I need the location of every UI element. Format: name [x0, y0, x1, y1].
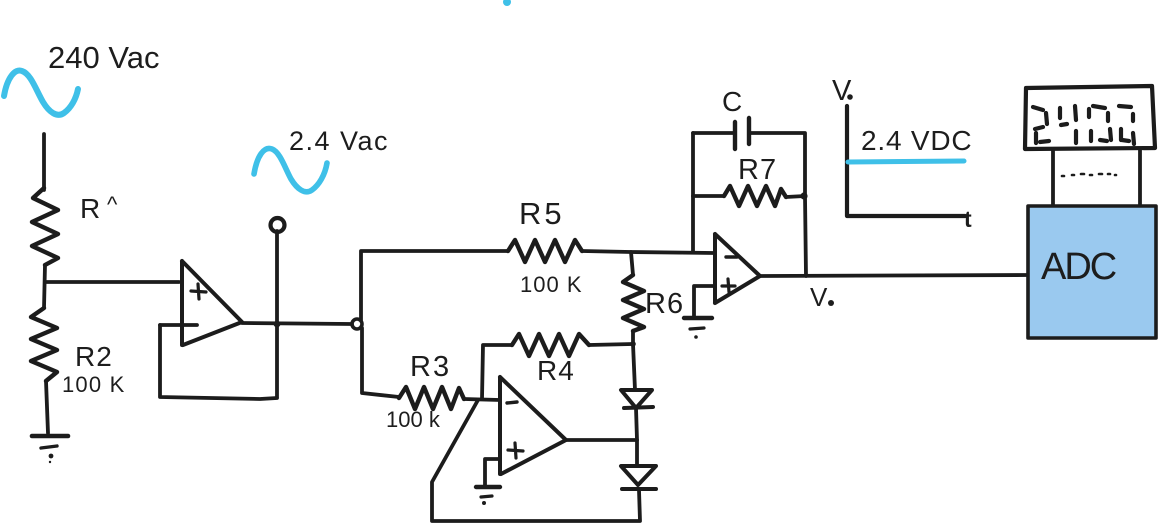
wire R5 to U3 input	[582, 251, 714, 253]
op-amp U2 plus	[508, 443, 523, 458]
AC sine symbol (2.4 Vac)	[254, 148, 327, 191]
svg-text:R2: R2	[75, 341, 113, 372]
wire display lead right	[1138, 149, 1142, 206]
wire to R5	[361, 251, 508, 320]
svg-text:R4: R4	[537, 355, 575, 386]
graph 2.4 VDC line	[848, 161, 964, 162]
svg-text:240 Vac: 240 Vac	[48, 40, 159, 75]
capacitor C	[735, 118, 749, 149]
wire to R3	[362, 328, 399, 397]
wire U2 plus to ground	[485, 459, 500, 485]
resistor R5	[508, 240, 582, 262]
display digit 0a	[1089, 106, 1111, 141]
display digit 4	[1060, 106, 1076, 143]
node circle splitter	[352, 319, 362, 329]
op-amp U3 plus	[722, 279, 735, 292]
resistor R2	[31, 308, 57, 381]
node junction dot	[274, 321, 281, 328]
output terminal circle	[271, 218, 285, 232]
svg-text:V: V	[832, 75, 852, 107]
wire C top feedback	[693, 133, 805, 196]
junction dot R7	[800, 192, 807, 199]
ground U2	[476, 487, 500, 505]
resistor R7	[724, 186, 786, 206]
svg-text:R7: R7	[738, 154, 777, 186]
wire R4 left leg	[482, 345, 512, 399]
wire R2 to ground	[46, 381, 48, 433]
wire U3 plus to ground	[694, 286, 715, 316]
svg-text:^: ^	[107, 192, 118, 217]
svg-text:t: t	[964, 206, 972, 232]
ground	[32, 436, 68, 463]
op-amp U2	[500, 377, 566, 474]
svg-text:R: R	[80, 193, 100, 224]
display box	[1025, 86, 1155, 149]
junction dot R4/R6	[630, 341, 636, 347]
op-amp U1 inverting stub	[160, 323, 197, 327]
svg-text:2.4 VDC: 2.4 VDC	[861, 125, 972, 156]
wire right feedback vertical	[805, 196, 806, 276]
wire R3 to U2	[464, 399, 500, 400]
wire junction to diode D1	[633, 344, 635, 390]
dotted bus	[1062, 174, 1116, 176]
wire R4 right to junction	[589, 344, 633, 345]
diode D1	[621, 390, 653, 408]
svg-text:100 K: 100 K	[62, 372, 126, 397]
wire node vertical	[275, 231, 279, 397]
svg-text:V: V	[810, 282, 828, 312]
svg-text:100 k: 100 k	[386, 407, 441, 432]
wire R6 top stub	[631, 252, 633, 275]
op-amp U2 minus	[507, 402, 517, 403]
wire diode column	[636, 408, 637, 466]
AC sine symbol (240 Vac)	[4, 70, 78, 114]
ground U3	[684, 318, 712, 339]
display digit 2	[1033, 107, 1049, 143]
wire R6 bottom stub	[631, 331, 635, 344]
diode D2	[621, 466, 656, 489]
wire U2 diagonal return	[432, 400, 640, 521]
op-amp U1	[182, 261, 242, 345]
wire U2 output	[566, 438, 637, 442]
wire R7 left stub	[693, 194, 724, 198]
op-amp U1 plus	[191, 284, 206, 299]
wire top feed	[42, 134, 46, 190]
ADC block	[1028, 206, 1156, 338]
wire U1 output	[242, 323, 352, 324]
wire U3 output to ADC	[760, 275, 1028, 276]
wire left feedback vertical	[691, 133, 695, 252]
svg-text:ADC: ADC	[1041, 246, 1116, 288]
stray cyan mark top	[503, 0, 511, 6]
wire U1 feedback	[160, 325, 277, 399]
svg-text:100 K: 100 K	[520, 272, 583, 297]
wire divider node to op-amp input	[46, 280, 179, 284]
svg-text:R6: R6	[645, 288, 684, 320]
resistor R1	[32, 188, 58, 265]
op-amp U3 minus	[726, 255, 737, 258]
wire R1 to divider node	[44, 265, 45, 308]
graph axes	[847, 106, 965, 216]
display digit 0b	[1119, 106, 1134, 144]
svg-text:R5: R5	[519, 196, 565, 231]
resistor R3	[399, 387, 464, 409]
op-amp U3	[715, 234, 760, 303]
svg-text:R3: R3	[410, 351, 451, 383]
resistor R6	[623, 275, 644, 331]
svg-text:C: C	[722, 86, 742, 117]
svg-text:2.4 Vac: 2.4 Vac	[289, 126, 389, 156]
resistor R4	[512, 334, 589, 356]
wire R7 right stub	[786, 196, 805, 197]
wire display lead left	[1051, 149, 1055, 206]
